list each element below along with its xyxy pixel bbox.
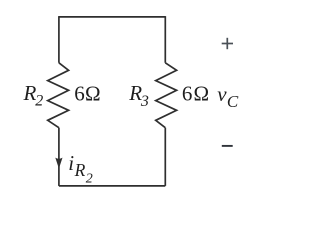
svg-text:3: 3 xyxy=(140,93,149,110)
wire top horizontal xyxy=(59,16,165,18)
svg-text:Ω: Ω xyxy=(194,82,210,106)
resistor R3 zigzag xyxy=(156,63,177,128)
minus sign xyxy=(222,145,233,147)
wire left vertical lower xyxy=(58,128,60,186)
resistor R2 zigzag xyxy=(48,63,69,128)
svg-text:2: 2 xyxy=(86,171,93,186)
svg-text:R: R xyxy=(74,160,86,180)
current arrowhead iR2 (points down) xyxy=(55,158,62,169)
svg-text:6: 6 xyxy=(182,82,193,106)
svg-text:Ω: Ω xyxy=(85,82,101,106)
plus sign xyxy=(222,38,233,49)
svg-text:2: 2 xyxy=(35,93,43,110)
wire bottom horizontal xyxy=(59,185,165,187)
svg-text:6: 6 xyxy=(74,82,85,106)
svg-text:C: C xyxy=(227,92,239,111)
wire right vertical lower xyxy=(164,128,166,186)
wire left vertical upper xyxy=(58,16,60,63)
svg-text:v: v xyxy=(217,82,227,106)
wire right vertical upper xyxy=(164,16,166,63)
svg-text:i: i xyxy=(68,151,74,175)
